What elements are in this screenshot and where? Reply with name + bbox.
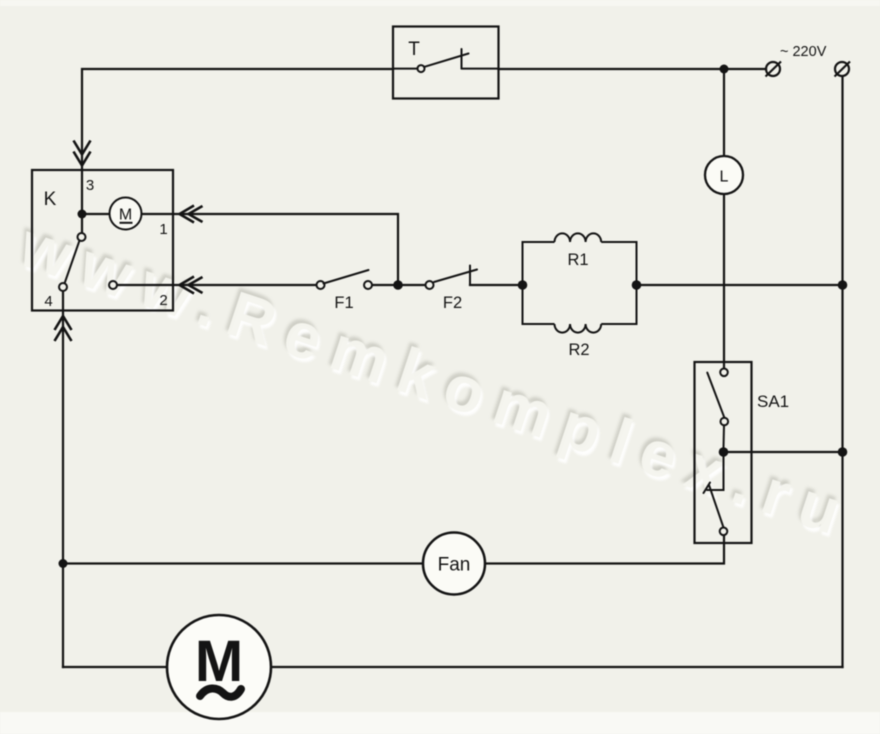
svg-text:M: M (119, 207, 132, 224)
wire F1 to junction to F2 (372, 284, 426, 286)
svg-text:SA1: SA1 (757, 392, 789, 411)
connector arrow pin2 (left) (180, 277, 203, 294)
wire fan row left (63, 562, 423, 564)
svg-text:1: 1 (159, 221, 167, 238)
junction right rail SA1 row (838, 447, 848, 457)
wire lamp drop from top junction (723, 69, 725, 157)
resistor network R2 bottom branch (523, 285, 637, 333)
wire F2 to R network (470, 284, 518, 286)
connector arrow pin4 (up) (55, 316, 72, 341)
thermostat T switch (393, 49, 499, 72)
compressor motor M (167, 615, 271, 719)
junction top wire to lamp branch (720, 65, 729, 74)
junction SA1 mid node (719, 447, 729, 457)
wire right rail (841, 77, 843, 667)
wire SA1 mid to right rail (724, 451, 843, 453)
svg-text:Fan: Fan (438, 555, 471, 576)
connector arrow pin3 (down) (74, 141, 91, 166)
svg-text:M: M (195, 629, 243, 694)
wire pin1 of K to F1F2 junction (142, 214, 399, 285)
relay K contact switch (59, 233, 117, 291)
wire motor to right rail (271, 666, 843, 668)
junction left rail fan row (59, 559, 68, 568)
wire top horizontal right of T box (499, 68, 767, 70)
wire bottom left to motor (63, 666, 167, 668)
terminal right ~220V (835, 62, 851, 77)
relay K box (32, 170, 173, 311)
wire K junction to relay coil (82, 213, 110, 215)
resistor network R1 top branch (523, 233, 637, 285)
svg-text:R1: R1 (567, 251, 588, 269)
wire fan row right (485, 535, 724, 564)
svg-text:4: 4 (44, 293, 52, 310)
motor AC tilde symbol (200, 688, 241, 696)
SA1 lower contact (704, 452, 728, 535)
connector arrow pin1 (left) (180, 206, 203, 223)
thermostat T box (393, 27, 499, 99)
svg-text:~ 220V: ~ 220V (780, 44, 827, 60)
wire pin2 of K to F1 (117, 284, 317, 286)
terminal left ~220V (766, 62, 782, 77)
SA1 upper contact (707, 369, 728, 448)
junction R network left node (518, 280, 528, 290)
switch F2 (426, 266, 478, 290)
junction right rail R row (838, 280, 848, 290)
wire lamp to SA1 (723, 194, 725, 369)
junction R network right node (632, 280, 642, 290)
svg-text:F1: F1 (334, 294, 353, 312)
svg-text:L: L (720, 169, 729, 186)
wire K pin4 down left rail (62, 291, 64, 667)
svg-text:R2: R2 (568, 341, 589, 359)
svg-text:2: 2 (159, 292, 167, 309)
switch SA1 box (695, 362, 752, 543)
lamp L (705, 156, 743, 194)
switch F1 (317, 270, 373, 289)
junction K pin3 node (78, 210, 87, 219)
svg-text:3: 3 (86, 177, 94, 194)
fan motor circle (423, 533, 485, 595)
relay coil M circle (110, 198, 142, 230)
junction F1-F2 node (393, 280, 403, 290)
wire R network output to right rail (637, 284, 843, 286)
svg-text:K: K (44, 189, 57, 210)
svg-text:T: T (408, 39, 420, 60)
svg-text:F2: F2 (443, 294, 462, 312)
wire top horizontal left segment (82, 69, 393, 233)
